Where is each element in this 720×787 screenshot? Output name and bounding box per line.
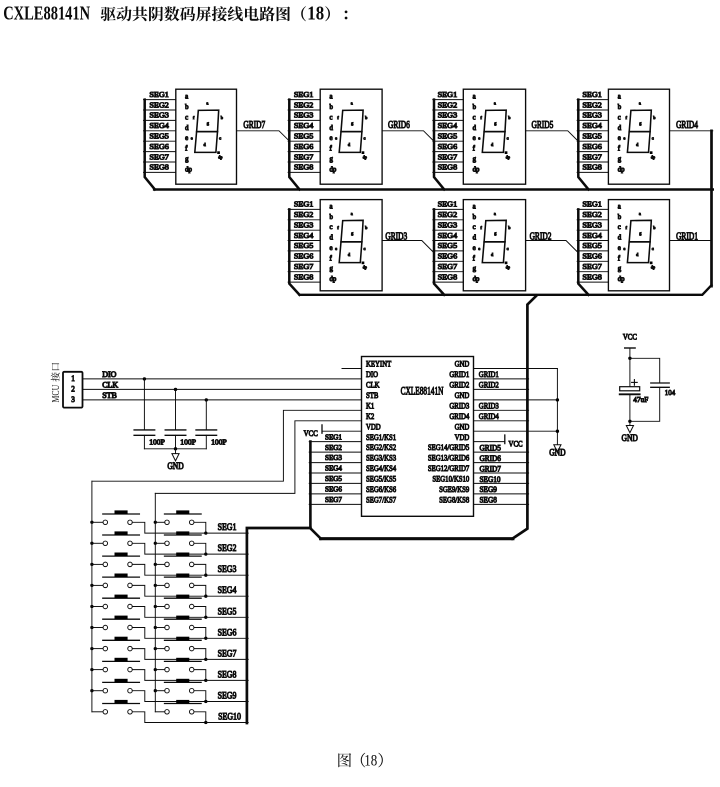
svg-text:b: b — [618, 104, 622, 111]
7-segment display module GRID2 — [433, 200, 526, 295]
svg-text:a: a — [618, 203, 621, 210]
7-segment display module GRID1 — [577, 200, 669, 295]
svg-text:d: d — [185, 125, 189, 132]
wire + label: SEG10 net at IC right — [474, 482, 529, 484]
svg-text:GRID2: GRID2 — [449, 380, 469, 390]
svg-text:SEG7: SEG7 — [218, 648, 238, 659]
svg-text:SEG3: SEG3 — [582, 111, 602, 120]
svg-text:SEG8/KS8: SEG8/KS8 — [439, 495, 469, 505]
svg-text:SEG1: SEG1 — [438, 90, 458, 99]
svg-text:GRID3: GRID3 — [479, 401, 499, 411]
svg-text:dp: dp — [330, 166, 337, 173]
svg-text:SEG1: SEG1 — [149, 90, 169, 99]
bus: left bus beside IC SEG pins — [310, 442, 321, 539]
wire: capacitor common ground rail — [144, 448, 206, 450]
svg-text:GRID6: GRID6 — [480, 454, 502, 463]
svg-text:d: d — [618, 235, 622, 242]
svg-text:dp: dp — [330, 276, 337, 283]
wire: GND net lines from IC pins to ground — [474, 368, 558, 370]
svg-text:e: e — [623, 246, 625, 251]
wire: DIO net from MCU to IC — [83, 378, 362, 380]
svg-text:GRID6: GRID6 — [388, 119, 410, 130]
7-segment display module GRID7 — [144, 89, 237, 189]
svg-text:SEG6: SEG6 — [294, 252, 314, 261]
power symbol: VCC at IC VDD (right) — [474, 441, 505, 443]
junction dot at cap bottoms — [628, 420, 631, 423]
svg-text:c: c — [473, 224, 476, 231]
svg-text:GRID4: GRID4 — [479, 411, 499, 421]
svg-text:GRID4: GRID4 — [676, 119, 698, 130]
op-amp / driver IC U1 CXLE88141N — [362, 357, 474, 517]
ground symbol right of IC — [554, 445, 561, 452]
7-segment display module GRID6 — [288, 89, 382, 189]
svg-text:SEG7: SEG7 — [582, 262, 602, 271]
key switch row 1 (SEG1) — [90, 510, 248, 534]
svg-text:SEG6/KS6: SEG6/KS6 — [366, 484, 396, 494]
key switch row 4 (SEG4) — [90, 574, 248, 598]
svg-text:SEG5: SEG5 — [438, 241, 458, 250]
svg-text:c: c — [618, 224, 621, 231]
svg-text:SEG2/KS2: SEG2/KS2 — [366, 442, 396, 452]
svg-text:SEG2: SEG2 — [218, 542, 237, 553]
svg-text:SGE9/KS9: SGE9/KS9 — [439, 484, 469, 494]
svg-text:g: g — [473, 156, 477, 163]
svg-text:a: a — [473, 94, 476, 101]
svg-text:SEG7: SEG7 — [294, 262, 314, 271]
wire: K1 net from IC to key matrix column 1 — [92, 410, 362, 481]
wire + label: SEG2 net at IC left — [309, 451, 361, 453]
bus: key matrix bus joining left bus — [247, 528, 311, 723]
svg-text:SEG6: SEG6 — [294, 142, 314, 151]
wire: K2 net from IC to key matrix column 2 — [155, 421, 361, 494]
svg-text:SEG4: SEG4 — [294, 121, 314, 130]
wire + label: GRID3 net — [382, 241, 434, 253]
svg-text:SEG10: SEG10 — [218, 711, 241, 722]
svg-text:c: c — [330, 114, 333, 121]
svg-text:SEG3: SEG3 — [438, 221, 458, 230]
svg-text:SEG9: SEG9 — [480, 485, 498, 494]
svg-text:c: c — [652, 136, 654, 141]
key switch row 7 (SEG7) — [90, 637, 248, 661]
svg-text:VDD: VDD — [455, 432, 470, 442]
svg-text:a: a — [639, 211, 641, 216]
svg-text:100P: 100P — [180, 437, 196, 446]
wire + label: GRID7 net at IC right — [474, 472, 529, 474]
svg-text:dp: dp — [473, 166, 480, 173]
svg-text:dp: dp — [651, 265, 655, 270]
svg-text:SEG7: SEG7 — [149, 152, 169, 161]
svg-text:DIO: DIO — [366, 369, 378, 379]
svg-text:e: e — [473, 135, 476, 142]
svg-text:SEG12/GRID7: SEG12/GRID7 — [428, 463, 470, 473]
svg-text:a: a — [473, 203, 476, 210]
wire + label: GRID2 net at IC right — [474, 388, 529, 390]
bus: second display row horizontal bus — [300, 285, 712, 295]
svg-text:SEG14/GRID5: SEG14/GRID5 — [428, 442, 470, 452]
svg-text:SEG4: SEG4 — [149, 121, 169, 130]
svg-text:SEG6: SEG6 — [149, 142, 169, 151]
svg-text:SEG8: SEG8 — [582, 163, 602, 172]
wire + label: GRID2 net — [526, 241, 579, 253]
svg-text:KEYINT: KEYINT — [366, 359, 391, 369]
svg-text:GRID2: GRID2 — [530, 230, 552, 241]
svg-text:GRID3: GRID3 — [449, 401, 469, 411]
svg-text:GRID2: GRID2 — [479, 380, 499, 390]
svg-text:d: d — [473, 125, 477, 132]
power symbol: VCC at IC VDD (left) — [322, 430, 362, 432]
svg-text:e: e — [478, 136, 480, 141]
svg-text:SEG2: SEG2 — [438, 210, 458, 219]
svg-text:VDD: VDD — [366, 421, 381, 431]
svg-text:SEG3: SEG3 — [218, 564, 237, 575]
svg-text:SEG2: SEG2 — [294, 100, 314, 109]
caption: figure (18) — [338, 752, 383, 769]
svg-text:SEG1: SEG1 — [325, 433, 342, 441]
svg-text:SEG8: SEG8 — [149, 163, 169, 172]
svg-text:c: c — [507, 136, 509, 141]
svg-text:g: g — [473, 266, 477, 273]
svg-text:SEG4: SEG4 — [438, 121, 458, 130]
svg-text:g: g — [618, 156, 622, 163]
svg-text:SEG8: SEG8 — [438, 163, 458, 172]
svg-text:GRID4: GRID4 — [449, 411, 469, 421]
svg-text:SEG5: SEG5 — [149, 132, 169, 141]
7-segment display module GRID3 — [288, 200, 382, 295]
svg-text:SEG6: SEG6 — [438, 252, 458, 261]
svg-text:c: c — [219, 136, 221, 141]
svg-text:1: 1 — [71, 374, 75, 383]
key switch row 10 (SEG10) — [92, 700, 248, 724]
svg-text:d: d — [330, 235, 334, 242]
svg-text:SEG5: SEG5 — [294, 132, 314, 141]
svg-text:SEG4: SEG4 — [582, 121, 602, 130]
svg-text:SEG7: SEG7 — [438, 262, 458, 271]
svg-text:e: e — [185, 135, 188, 142]
svg-text:SEG1: SEG1 — [582, 90, 602, 99]
capacitor C4 47uF electrolytic — [620, 358, 649, 421]
svg-text:SEG13/GRID6: SEG13/GRID6 — [428, 453, 470, 463]
svg-text:e: e — [618, 245, 621, 252]
svg-text:SEG5: SEG5 — [325, 475, 342, 483]
wire + label: SEG7 net at IC left — [309, 503, 361, 505]
wire: right vertical bus from GRID4/GRID1 down to second row bus — [710, 131, 713, 286]
svg-text:SEG4: SEG4 — [294, 231, 314, 240]
svg-text:b: b — [330, 104, 334, 111]
ground symbol below caps — [629, 421, 631, 425]
svg-text:a: a — [351, 101, 353, 106]
svg-text:SEG3: SEG3 — [149, 111, 169, 120]
svg-text:c: c — [364, 246, 366, 251]
svg-text:GND: GND — [455, 421, 470, 431]
svg-text:SEG1/KS1: SEG1/KS1 — [366, 432, 396, 442]
wire + label: GRID7 net — [237, 131, 290, 141]
svg-text:SEG1: SEG1 — [582, 200, 602, 209]
junction dots on GND net — [556, 398, 559, 401]
svg-text:SEG9: SEG9 — [218, 690, 237, 701]
bus: bottom horizontal bus under IC — [321, 537, 513, 540]
svg-text:a: a — [185, 94, 188, 101]
connector J1: MCU interface — [63, 372, 83, 408]
svg-text:SEG6: SEG6 — [325, 486, 342, 494]
svg-text:e: e — [473, 245, 476, 252]
svg-text:g: g — [330, 156, 334, 163]
svg-text:d: d — [473, 235, 477, 242]
svg-text:SEG8: SEG8 — [438, 273, 458, 282]
svg-text:SEG8: SEG8 — [582, 273, 602, 282]
svg-text:SEG2: SEG2 — [149, 100, 169, 109]
7-segment display module GRID4 — [577, 89, 669, 189]
svg-text:c: c — [652, 246, 654, 251]
svg-text:SEG4: SEG4 — [325, 465, 342, 473]
svg-text:DIO: DIO — [102, 370, 116, 379]
svg-text:SEG3: SEG3 — [582, 221, 602, 230]
key switch row 3 (SEG3) — [90, 553, 248, 577]
svg-text:dp: dp — [218, 154, 222, 159]
svg-text:GRID5: GRID5 — [480, 443, 502, 452]
wire + label: GRID6 net at IC right — [474, 462, 529, 464]
wire: KEYINT stub — [342, 368, 362, 370]
svg-text:d: d — [330, 125, 334, 132]
svg-text:g: g — [330, 266, 334, 273]
wire + label: GRID3 net at IC right — [474, 409, 529, 411]
wire + label: SEG5 net at IC left — [309, 482, 361, 484]
svg-text:STB: STB — [102, 391, 117, 400]
svg-text:SEG2: SEG2 — [582, 100, 602, 109]
svg-text:GND: GND — [549, 448, 565, 458]
svg-text:GND: GND — [455, 390, 470, 400]
svg-text:VCC: VCC — [304, 428, 318, 438]
wire: key matrix column 2 (K2) — [154, 493, 156, 711]
svg-text:SEG2: SEG2 — [294, 210, 314, 219]
svg-text:c: c — [330, 224, 333, 231]
wire + label: GRID6 net — [382, 131, 434, 142]
power symbol: VCC supply — [623, 332, 637, 360]
svg-text:18: 18 — [364, 752, 377, 769]
svg-text:CXLE88141N: CXLE88141N — [401, 385, 444, 398]
capacitor C2 100P on CLK — [165, 388, 196, 449]
svg-text:SEG8: SEG8 — [218, 669, 237, 680]
key switch row 2 (SEG2) — [90, 531, 248, 555]
bus: branch from second row bus down the right side of IC — [512, 296, 536, 539]
svg-text:GND: GND — [455, 359, 470, 369]
svg-text:e: e — [330, 135, 333, 142]
svg-text:SEG6: SEG6 — [582, 142, 602, 151]
svg-text:SEG4/KS4: SEG4/KS4 — [366, 463, 396, 473]
svg-text:SEG8: SEG8 — [480, 495, 498, 504]
svg-text:g: g — [185, 156, 189, 163]
svg-text:SEG3: SEG3 — [325, 454, 342, 462]
svg-text:b: b — [185, 104, 189, 111]
svg-text:SEG7: SEG7 — [325, 496, 342, 504]
svg-text:c: c — [185, 114, 188, 121]
svg-text:104: 104 — [665, 389, 676, 397]
svg-text:SEG5/KS5: SEG5/KS5 — [366, 474, 396, 484]
svg-text:dp: dp — [618, 276, 625, 283]
svg-text:e: e — [191, 136, 193, 141]
svg-text:VCC: VCC — [509, 439, 523, 449]
svg-text:SEG2: SEG2 — [438, 100, 458, 109]
wire + label: GRID4 net — [670, 130, 713, 132]
svg-text:K1: K1 — [366, 401, 374, 411]
capacitor C3 100P on STB — [196, 398, 227, 449]
svg-text:e: e — [478, 246, 480, 251]
svg-text:SEG5: SEG5 — [218, 606, 237, 617]
svg-text:SEG5: SEG5 — [582, 241, 602, 250]
svg-text:GND: GND — [167, 461, 183, 471]
wire + label: GRID5 net at IC right — [474, 451, 529, 453]
svg-text:SEG1: SEG1 — [294, 90, 314, 99]
svg-text:SEG1: SEG1 — [438, 200, 458, 209]
7-segment display module GRID5 — [433, 89, 526, 189]
svg-text:dp: dp — [363, 265, 367, 270]
svg-text:dp: dp — [506, 265, 510, 270]
svg-text:SEG5: SEG5 — [438, 132, 458, 141]
svg-text:b: b — [330, 214, 334, 221]
svg-text:SEG10/KS10: SEG10/KS10 — [432, 474, 469, 484]
svg-text:SEG4: SEG4 — [582, 231, 602, 240]
capacitor C5 104 — [630, 358, 676, 421]
svg-text:2: 2 — [71, 384, 75, 393]
svg-text:100P: 100P — [211, 437, 227, 446]
svg-text:g: g — [618, 266, 622, 273]
svg-text:dp: dp — [473, 276, 480, 283]
svg-text:d: d — [618, 125, 622, 132]
svg-text:SEG4: SEG4 — [438, 231, 458, 240]
wire + label: SEG4 net at IC left — [309, 472, 361, 474]
svg-text:GRID7: GRID7 — [243, 119, 265, 130]
svg-text:CLK: CLK — [366, 380, 380, 390]
svg-text:dp: dp — [618, 166, 625, 173]
capacitor C1 100P on DIO — [134, 377, 165, 449]
svg-text:a: a — [618, 94, 621, 101]
svg-text:SEG7: SEG7 — [294, 152, 314, 161]
svg-text:GRID5: GRID5 — [531, 119, 553, 130]
ground symbol below capacitors — [175, 449, 177, 454]
svg-text:MCU: MCU — [50, 384, 61, 402]
svg-text:a: a — [206, 101, 208, 106]
svg-text:dp: dp — [363, 154, 367, 159]
svg-text:SEG8: SEG8 — [294, 163, 314, 172]
key switch row 5 (SEG5) — [90, 595, 248, 619]
svg-text:c: c — [473, 114, 476, 121]
svg-text:SEG6: SEG6 — [582, 252, 602, 261]
svg-text:SEG6: SEG6 — [438, 142, 458, 151]
svg-text:SEG5: SEG5 — [294, 241, 314, 250]
svg-text:100P: 100P — [149, 437, 165, 446]
svg-text:a: a — [330, 94, 333, 101]
wire + label: GRID4 net at IC right — [474, 420, 529, 422]
wire + label: GRID1 net at IC right — [474, 378, 529, 380]
svg-text:b: b — [473, 214, 477, 221]
wire: key matrix column 1 (K1) — [91, 481, 93, 712]
svg-text:b: b — [473, 104, 477, 111]
svg-text:18: 18 — [307, 2, 324, 24]
title text: CXLE88141N drive common-cathode display wiring diagram (18) — [3, 1, 347, 24]
svg-text:SEG5: SEG5 — [582, 132, 602, 141]
svg-text:SEG1: SEG1 — [294, 200, 314, 209]
wire + label: GRID5 net — [526, 131, 579, 142]
svg-text:K2: K2 — [366, 411, 374, 421]
wire: STB net from MCU to IC — [83, 399, 362, 401]
svg-text:GND: GND — [622, 433, 638, 443]
svg-text:e: e — [623, 136, 625, 141]
svg-text:STB: STB — [366, 390, 378, 400]
svg-text:SEG3: SEG3 — [438, 111, 458, 120]
svg-text:c: c — [364, 136, 366, 141]
svg-text:SEG7: SEG7 — [438, 152, 458, 161]
svg-text:SEG7: SEG7 — [582, 152, 602, 161]
svg-text:GRID3: GRID3 — [385, 230, 407, 241]
svg-text:SEG2: SEG2 — [325, 444, 342, 452]
svg-text:SEG4: SEG4 — [218, 585, 238, 596]
key switch row 8 (SEG8) — [90, 658, 248, 682]
wire: CLK net from MCU to IC — [83, 388, 362, 390]
key switch row 6 (SEG6) — [90, 616, 248, 640]
key switch row 9 (SEG9) — [90, 679, 248, 703]
svg-text:e: e — [335, 136, 337, 141]
svg-text:dp: dp — [651, 154, 655, 159]
svg-text:SEG7/KS7: SEG7/KS7 — [366, 495, 396, 505]
svg-text:VCC: VCC — [623, 332, 637, 342]
wire + label: SEG1 net at IC left — [309, 441, 361, 443]
svg-text:SEG8: SEG8 — [294, 273, 314, 282]
svg-text:47uF: 47uF — [633, 395, 648, 404]
svg-text:CLK: CLK — [102, 380, 118, 389]
svg-text:a: a — [494, 101, 496, 106]
svg-text:a: a — [494, 211, 496, 216]
svg-text:SEG6: SEG6 — [218, 627, 238, 638]
wire + label: GRID1 net — [670, 240, 712, 242]
svg-text:GRID7: GRID7 — [480, 464, 502, 473]
svg-text:a: a — [330, 203, 333, 210]
svg-text:dp: dp — [185, 166, 192, 173]
svg-text:c: c — [507, 246, 509, 251]
svg-text:SEG3/KS3: SEG3/KS3 — [366, 453, 396, 463]
wire + label: SEG3 net at IC left — [309, 462, 361, 464]
svg-text:CXLE88141N: CXLE88141N — [3, 1, 90, 24]
svg-text:e: e — [618, 135, 621, 142]
bus: top display row horizontal bus — [154, 188, 713, 191]
svg-text:3: 3 — [71, 395, 75, 404]
svg-text:SEG3: SEG3 — [294, 221, 314, 230]
svg-text:c: c — [618, 114, 621, 121]
svg-text:SEG3: SEG3 — [294, 111, 314, 120]
svg-text:SEG1: SEG1 — [218, 521, 237, 532]
svg-text:GRID1: GRID1 — [676, 230, 698, 241]
svg-text:b: b — [618, 214, 622, 221]
wire + label: SEG9 net at IC right — [474, 493, 529, 495]
svg-text:GRID1: GRID1 — [449, 369, 469, 379]
svg-text:a: a — [639, 101, 641, 106]
svg-text:dp: dp — [506, 154, 510, 159]
svg-text:e: e — [330, 245, 333, 252]
label: MCU interface (vertical) — [50, 363, 61, 403]
svg-text:e: e — [335, 246, 337, 251]
svg-text:GRID1: GRID1 — [479, 369, 499, 379]
svg-text:SEG2: SEG2 — [582, 210, 602, 219]
wire + label: SEG6 net at IC left — [309, 493, 361, 495]
svg-text:a: a — [351, 211, 353, 216]
svg-text:SEG10: SEG10 — [480, 475, 501, 484]
wire + label: SEG8 net at IC right — [474, 503, 529, 505]
